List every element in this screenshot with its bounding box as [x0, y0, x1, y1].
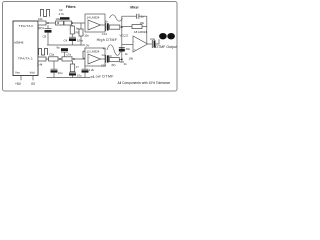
op-amp U2A triangle	[88, 20, 101, 30]
mixer input stub	[122, 44, 133, 46]
svg-text:All Components with 10% Tolera: All Components with 10% Tolerance	[118, 81, 171, 85]
capacitor below R low	[69, 71, 76, 73]
svg-text:AC: AC	[108, 54, 112, 58]
svg-text:C3a: C3a	[49, 53, 55, 57]
svg-text:TPA/TA.1: TPA/TA.1	[18, 57, 33, 61]
svg-text:100n: 100n	[77, 39, 84, 43]
mixer node vertical wire	[121, 16, 123, 62]
svg-text:-: -	[89, 56, 90, 59]
svg-text:Mixer: Mixer	[130, 6, 139, 10]
resistor R2	[56, 21, 64, 25]
svg-text:9a: 9a	[57, 46, 61, 50]
svg-text:14 LM324: 14 LM324	[87, 16, 100, 20]
node junction mixer-low	[121, 59, 123, 61]
node junction top2	[57, 22, 58, 23]
wire 0V from IC bottom	[32, 76, 34, 81]
ground bias	[120, 61, 124, 63]
capacitor C4 shunt	[71, 34, 73, 38]
connector plugs	[159, 33, 167, 39]
ground rail top filter	[47, 44, 85, 46]
square wave symbol (low group)	[39, 49, 48, 56]
op-amp U2A output wire	[101, 25, 107, 27]
svg-text:C8: C8	[43, 35, 47, 39]
resistor R low1	[38, 57, 46, 61]
svg-text:Filters: Filters	[66, 5, 76, 9]
capacitor C8 shunt	[47, 25, 49, 29]
capacitor C10	[105, 55, 107, 63]
sine wave symbol (high)	[110, 15, 123, 21]
op-amp U2A box	[85, 14, 105, 32]
svg-text:High DTMF: High DTMF	[97, 38, 118, 42]
capacitor C16	[151, 40, 153, 48]
svg-text:C4u: C4u	[150, 37, 156, 41]
mixer output wire	[148, 43, 152, 45]
svg-text:-: -	[89, 22, 90, 25]
op-amp U2B output wire	[101, 58, 107, 60]
node B junction	[72, 22, 73, 23]
square wave symbol (high group)	[41, 10, 50, 17]
svg-text:VCC/2: VCC/2	[120, 34, 129, 38]
resistor R9 vertical	[71, 25, 73, 26]
svg-text:c7a: c7a	[67, 52, 72, 56]
resistor R1	[38, 21, 46, 25]
svg-text:C4: C4	[64, 39, 68, 43]
svg-text:10u: 10u	[77, 74, 82, 78]
resistor R14	[109, 25, 120, 29]
shunt R up at filter end	[84, 57, 86, 60]
resistor shunt 10n branch	[80, 23, 82, 29]
svg-text:3,4k: 3,4k	[37, 63, 43, 67]
op-amp U2B triangle	[88, 54, 101, 64]
wire IC pin to top filter	[38, 22, 85, 24]
svg-text:Vdd: Vdd	[30, 70, 36, 74]
op-amp U2D triangle (mixer)	[133, 36, 148, 52]
svg-text:10n: 10n	[84, 34, 89, 38]
svg-text:10u: 10u	[58, 71, 63, 75]
capacitor C2 (polarized)	[60, 17, 70, 20]
svg-text:-: -	[134, 41, 135, 44]
svg-text:J.2k: J.2k	[89, 68, 95, 72]
svg-text:(R)1: (R)1	[39, 26, 45, 30]
IC U1	[13, 21, 38, 76]
svg-text:Low DTMF: Low DTMF	[93, 74, 114, 78]
svg-text:+5V: +5V	[15, 82, 22, 86]
svg-text:M5846: M5846	[14, 40, 24, 44]
wire +5V from IC bottom	[20, 76, 22, 81]
svg-text:10k: 10k	[129, 57, 134, 61]
svg-text:(R)-: (R)-	[112, 63, 117, 67]
svg-text:C14: C14	[102, 32, 108, 36]
resistor c7a	[62, 57, 72, 61]
svg-text:J7: J7	[76, 65, 79, 69]
op-amp U2B box	[85, 48, 105, 66]
capacitor left shunt low	[53, 61, 55, 69]
svg-text:1u: 1u	[141, 14, 145, 18]
svg-text:10k: 10k	[140, 21, 145, 25]
feedback resistor wire	[122, 26, 132, 28]
capacitor right shunt low	[84, 61, 86, 69]
svg-text:12 LM324: 12 LM324	[87, 50, 100, 54]
svg-text:Vss: Vss	[15, 70, 20, 74]
svg-text:DTMF Output: DTMF Output	[155, 45, 177, 49]
feedback top wire	[122, 15, 137, 17]
wire to mixer node	[120, 26, 122, 28]
svg-text:C10: C10	[101, 64, 107, 68]
sine wave symbol (low)	[107, 45, 121, 56]
resistor R feedback	[132, 25, 142, 29]
capacitor C feedback	[136, 14, 138, 19]
bias capacitor	[119, 46, 125, 48]
svg-text:18 LM324: 18 LM324	[134, 30, 147, 34]
feedback right wire down to output	[146, 16, 148, 44]
wire IC pin2 to lower filter	[38, 58, 85, 60]
wire R10 to mixer node	[119, 59, 122, 61]
output wire	[155, 39, 159, 44]
node junction lower2	[73, 58, 74, 59]
resistor C3a	[49, 57, 59, 61]
svg-text:10n: 10n	[126, 47, 131, 51]
svg-text:10k: 10k	[56, 17, 61, 21]
node junction lower	[59, 58, 60, 59]
node junction dot	[121, 26, 123, 28]
node A junction	[47, 22, 48, 23]
svg-text:4.7u: 4.7u	[59, 12, 65, 16]
border frame	[3, 2, 178, 92]
shunt R vertical low	[72, 61, 74, 64]
svg-text:TPA/TA3: TPA/TA3	[19, 24, 34, 28]
resistor R10	[109, 58, 119, 62]
capacitor C14	[105, 23, 107, 31]
ground rail lower filter	[47, 77, 91, 79]
svg-text:10k: 10k	[38, 17, 43, 21]
